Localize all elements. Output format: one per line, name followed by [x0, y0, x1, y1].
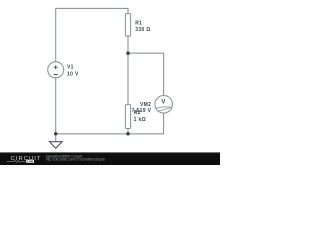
resistor R1	[125, 14, 130, 37]
logo trace line with resistor zigzag	[7, 160, 26, 162]
svg-text:V1: V1	[67, 65, 74, 71]
svg-text:VM2: VM2	[140, 102, 151, 108]
svg-text:1 kΩ: 1 kΩ	[134, 117, 146, 123]
svg-text:R2: R2	[134, 110, 141, 116]
wire bottom horizontal	[56, 133, 164, 135]
wire right rail VM2 top lead	[163, 53, 165, 96]
wire ground stub	[55, 134, 57, 142]
wire left rail upper (V1 top lead)	[55, 8, 57, 62]
svg-text:330 Ω: 330 Ω	[135, 27, 151, 33]
ground	[50, 142, 63, 149]
voltmeter VM2	[155, 96, 173, 114]
wire middle rail R2 bottom lead	[127, 129, 129, 134]
wire top horizontal	[56, 7, 128, 9]
svg-text:10 V: 10 V	[67, 72, 79, 78]
node junction at R1/R2/VM2	[126, 52, 129, 55]
wire middle rail R1 top lead	[127, 8, 129, 14]
svg-text:http://circuitlab.com/c/7x26n9: http://circuitlab.com/c/7x26n9887pb3qr8/	[46, 158, 105, 162]
svg-text:LAB: LAB	[27, 159, 33, 163]
wire middle rail R1 bottom to R2 top	[127, 36, 129, 104]
voltage source V1	[48, 62, 64, 78]
svg-text:V: V	[161, 99, 165, 105]
node junction at R2 bottom	[126, 132, 129, 135]
wire left rail lower (V1 bottom lead)	[55, 78, 57, 134]
footer bar	[0, 152, 220, 165]
wire right rail VM2 bottom lead	[163, 113, 165, 134]
logo LAB box	[26, 160, 34, 163]
resistor R2	[125, 105, 130, 129]
wire node row horizontal to voltmeter	[128, 52, 164, 54]
svg-text:R1: R1	[135, 21, 142, 27]
node junction at V1/ground	[54, 132, 57, 135]
